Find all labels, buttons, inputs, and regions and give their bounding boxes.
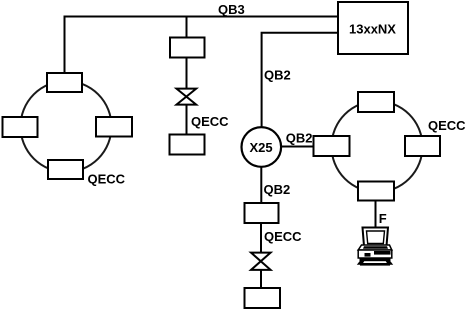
- valve V1: [177, 89, 197, 105]
- node X25 circle: [241, 127, 281, 167]
- svg-text:QECC: QECC: [428, 118, 466, 133]
- svg-text:X25: X25: [250, 140, 273, 155]
- PC workstation icon: [357, 228, 393, 266]
- svg-text:13xxNX: 13xxNX: [349, 22, 396, 37]
- wire QB2 from 13xxNX down to X25: [262, 33, 338, 128]
- wire valve1 to box: [186, 105, 188, 135]
- case top dark inset: [363, 246, 388, 249]
- valve V2: [251, 253, 271, 270]
- svg-text:QECC: QECC: [264, 229, 302, 244]
- controller 13xxNX: [338, 2, 408, 54]
- station box top-center lower: [170, 135, 205, 155]
- wire valve2 to box: [260, 270, 262, 288]
- station box left-ring bottom: [48, 160, 83, 179]
- svg-text:QB2: QB2: [264, 68, 291, 83]
- wire bus drop to top-center station: [186, 17, 188, 38]
- drive bay dark panel: [374, 251, 391, 255]
- station box right-ring top: [358, 92, 394, 112]
- left foot: [357, 261, 365, 265]
- station box bottom-center upper: [245, 203, 279, 223]
- station box left-ring left: [3, 117, 38, 137]
- station box left-ring right: [96, 117, 132, 137]
- station box bottom-center lower: [245, 288, 281, 308]
- wire box to valve1: [186, 58, 188, 89]
- case top surface: [358, 245, 392, 250]
- svg-text:QB2: QB2: [286, 131, 313, 146]
- base bar: [360, 263, 390, 266]
- monitor screen: [367, 231, 385, 244]
- monitor frame: [363, 228, 389, 247]
- wire right ring to PC: [375, 201, 377, 229]
- floppy slot: [365, 253, 371, 257]
- wire QB3 bus with drop to left ring: [65, 17, 339, 74]
- station box left-ring top: [47, 73, 82, 92]
- case front: [358, 250, 392, 258]
- station box right-ring right: [405, 136, 440, 156]
- svg-text:QECC: QECC: [88, 171, 126, 186]
- wire box to valve2: [260, 223, 262, 253]
- ring left: [21, 81, 112, 172]
- ring right: [332, 101, 423, 192]
- svg-text:QB3: QB3: [218, 2, 245, 17]
- svg-text:F: F: [379, 211, 387, 226]
- wire X25 down: [260, 167, 262, 203]
- svg-text:QB2: QB2: [264, 182, 291, 197]
- wire X25 to right ring: [281, 146, 313, 148]
- station box top-center upper: [170, 38, 205, 58]
- station box right-ring left: [314, 136, 350, 156]
- case bottom band: [360, 258, 391, 261]
- right foot: [386, 261, 394, 265]
- svg-text:QECC: QECC: [191, 114, 229, 129]
- station box right-ring bottom: [358, 182, 394, 201]
